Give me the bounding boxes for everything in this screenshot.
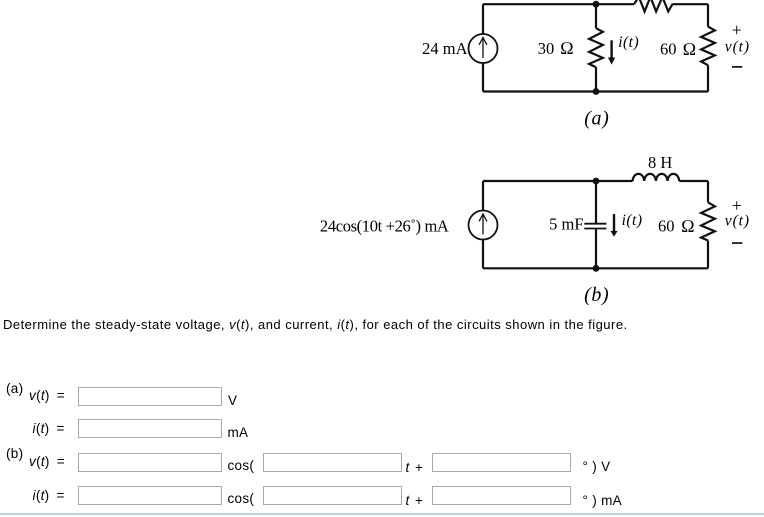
current source 24 mA <box>469 34 498 63</box>
row1 unit V <box>228 393 237 408</box>
current source 24cos <box>469 211 498 240</box>
svg-text:30: 30 <box>538 39 555 58</box>
current arrow i(t) (a) <box>608 40 615 64</box>
row4 input1 <box>78 486 222 505</box>
row3 input2 <box>263 453 402 472</box>
resistor R 60ohm (b) <box>701 202 715 240</box>
row4 label i(t)= <box>33 488 65 503</box>
row4 input3 <box>432 486 571 505</box>
row2 input <box>78 419 222 438</box>
row3 label v(t)= <box>29 454 65 469</box>
wire: top right segment (a) <box>672 3 708 5</box>
bottom divider <box>0 513 764 515</box>
wire: top left segment (a) <box>483 3 634 5</box>
row2 unit mA <box>228 425 249 440</box>
wire: middle lower (b) <box>595 229 597 268</box>
svg-text:8 H: 8 H <box>648 153 672 172</box>
row4 deg ) mA <box>583 493 622 508</box>
row (b) label <box>6 446 23 461</box>
wire: left upper (b) <box>482 181 484 211</box>
row3 cos( <box>228 458 255 473</box>
wire: top left segment (b) <box>483 180 633 182</box>
resistor (horizontal, top, cut off) <box>634 0 672 12</box>
source arrow (a) <box>479 38 487 59</box>
circuit figure <box>0 0 764 312</box>
svg-text:v(t): v(t) <box>725 212 750 229</box>
wire: right lower (b) <box>707 241 709 269</box>
current arrow i(t) (b) <box>610 214 617 237</box>
row3 t + <box>406 460 424 475</box>
row3 input1 <box>78 453 222 472</box>
svg-text:60: 60 <box>660 39 677 58</box>
resistor R 30ohm <box>589 28 603 67</box>
svg-text:Ω: Ω <box>560 38 574 58</box>
wire: top right segment (b) <box>679 180 708 182</box>
wire: right lower (a) <box>707 65 709 91</box>
svg-text:24cos(10t +26˚) mA: 24cos(10t +26˚) mA <box>320 216 449 235</box>
svg-text:+: + <box>732 20 742 40</box>
wire: middle lower (a) <box>595 67 597 91</box>
row3 deg ) V <box>583 459 611 474</box>
label minus (b) <box>732 242 742 244</box>
svg-text:Ω: Ω <box>681 216 695 236</box>
svg-text:Ω: Ω <box>683 39 697 59</box>
capacitor 5 mF <box>584 223 606 225</box>
row1 input <box>78 387 222 406</box>
node dot top (b) <box>593 178 600 185</box>
question text <box>3 317 628 332</box>
wire: right upper (b) <box>707 181 709 202</box>
wire: left lower (b) <box>482 240 484 269</box>
row4 cos( <box>228 491 255 506</box>
svg-text:i(t): i(t) <box>618 34 639 51</box>
wire: left upper (a) <box>482 4 484 34</box>
resistor R 60ohm (a) <box>701 27 715 66</box>
inductor 8 H <box>633 174 680 181</box>
node dot top (a) <box>593 1 600 8</box>
row3 input3 <box>432 453 571 472</box>
row4 t + <box>406 493 424 508</box>
row1 label v(t)= <box>29 388 65 403</box>
svg-text:(a): (a) <box>584 107 609 129</box>
svg-text:i(t): i(t) <box>622 212 643 229</box>
wire: middle upper (a) <box>595 4 597 28</box>
wire: middle upper (b) <box>595 181 597 223</box>
wire: bottom (a) <box>483 90 708 92</box>
row2 label i(t)= <box>33 421 65 436</box>
node dot bottom (b) <box>593 265 600 272</box>
svg-text:v(t): v(t) <box>725 38 750 55</box>
svg-text:60: 60 <box>658 216 675 235</box>
wire: left lower (a) <box>482 63 484 92</box>
row4 input2 <box>263 486 402 505</box>
node dot bottom (a) <box>593 88 600 95</box>
svg-text:24 mA: 24 mA <box>422 39 467 58</box>
source arrow (b) <box>479 214 487 235</box>
wire: right upper (a) <box>707 4 709 26</box>
label minus (a) <box>732 66 742 68</box>
svg-text:(b): (b) <box>584 284 609 306</box>
wire: bottom (b) <box>483 267 708 269</box>
svg-text:5 mF: 5 mF <box>549 215 583 234</box>
row (a) label <box>6 381 23 396</box>
